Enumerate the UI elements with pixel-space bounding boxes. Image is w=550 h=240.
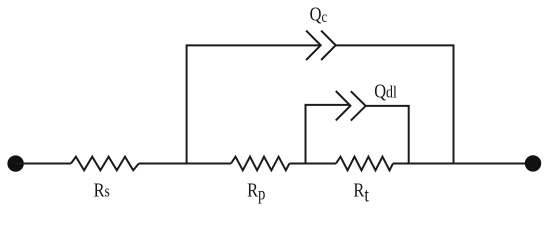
svg-text:Qc: Qc (310, 3, 327, 26)
svg-text:Rp: Rp (247, 179, 265, 204)
wire Qc top right lead and right riser (336, 45, 454, 164)
resistor Rp (231, 157, 289, 171)
wire Rs to Rp (node A under Qc branch) (139, 163, 231, 165)
label Rt (353, 179, 368, 206)
wire Qdl right lead and right riser (366, 106, 409, 165)
wire left terminal to Rs (16, 163, 71, 165)
label Rp (247, 179, 265, 204)
CPE Qc chevron 1 (306, 31, 321, 60)
CPE Qdl chevron 1 (336, 91, 351, 120)
label Qdl (374, 80, 397, 102)
wire Rt to right terminal (393, 163, 533, 165)
svg-text:Rt: Rt (353, 179, 368, 206)
svg-text:Rs: Rs (94, 179, 110, 201)
label Rs (94, 179, 110, 201)
resistor Rt (336, 157, 393, 171)
CPE Qc chevron 2 (321, 31, 336, 60)
wire Qdl branch left riser and lead (306, 105, 351, 165)
svg-text:Qdl: Qdl (374, 80, 397, 102)
CPE Qdl chevron 2 (351, 91, 366, 120)
terminal left dot (8, 156, 23, 171)
resistor Rs (71, 157, 139, 171)
terminal right dot (526, 156, 541, 171)
label Qc (310, 3, 327, 26)
wire Qc branch left riser and top lead (187, 45, 321, 164)
wire Rp to Rt (node B under Qdl branch) (289, 163, 336, 165)
